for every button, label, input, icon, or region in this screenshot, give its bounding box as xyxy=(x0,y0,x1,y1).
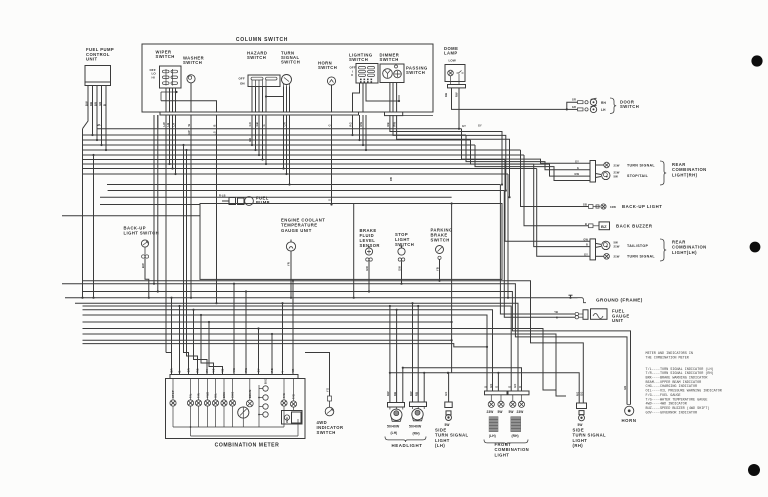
washer switch SW2 xyxy=(187,75,195,83)
svg-text:COLUMN SWITCH: COLUMN SWITCH xyxy=(236,37,288,43)
svg-text:BR: BR xyxy=(93,102,97,106)
svg-text:RG: RG xyxy=(575,392,579,396)
svg-text:GY: GY xyxy=(575,159,579,163)
svg-text:(RH): (RH) xyxy=(573,443,584,448)
svg-text:LIGHT: LIGHT xyxy=(495,452,510,457)
dome lamp connector xyxy=(448,85,466,88)
engine coolant temperature gauge unit U2 xyxy=(286,242,295,251)
wire horn switch to bar xyxy=(331,85,333,112)
rear LH tail stop bulb L5 xyxy=(596,243,602,244)
rear LH turn bulb L6 xyxy=(596,255,605,257)
svg-text:YB: YB xyxy=(554,310,558,314)
svg-text:(RH): (RH) xyxy=(512,434,519,438)
rear RH stop tail bulb L3 xyxy=(596,174,602,175)
turn signal switch SW4 xyxy=(282,75,292,85)
svg-text:UNIT: UNIT xyxy=(612,318,624,323)
svg-text:THE COMBINATION METER: THE COMBINATION METER xyxy=(646,357,689,361)
svg-text:RB: RB xyxy=(196,368,200,372)
wire meter pin 13 xyxy=(292,281,294,375)
svg-text:HORN: HORN xyxy=(621,418,636,423)
svg-text:F/G----FUEL GAUGE: F/G----FUEL GAUGE xyxy=(646,393,681,398)
registration dot top right xyxy=(751,55,762,66)
bus wire lower extra B xyxy=(83,344,488,347)
horn switch SW5 xyxy=(327,77,335,85)
svg-text:RH: RH xyxy=(601,101,607,105)
wire meter pin 11 xyxy=(271,334,273,375)
svg-text:SWITCH: SWITCH xyxy=(281,60,300,65)
svg-text:GW: GW xyxy=(398,266,402,271)
svg-text:R-LB: R-LB xyxy=(219,194,226,198)
svg-text:GB: GB xyxy=(583,203,587,207)
svg-text:SENSOR: SENSOR xyxy=(360,243,380,248)
wire fuel gauge feed 2 xyxy=(504,191,575,318)
wire front comb extra drops xyxy=(423,373,425,402)
svg-text:GR: GR xyxy=(572,98,576,102)
wire headlight LH drop 2 xyxy=(396,310,398,403)
wire fuel gauge feed xyxy=(500,185,575,315)
wire meter pin 4 xyxy=(187,150,198,375)
back buzzer BZ1 xyxy=(599,222,610,230)
front comb brace xyxy=(484,440,528,445)
headlight RH connector xyxy=(410,402,427,407)
svg-text:RG: RG xyxy=(349,122,353,126)
wire rear RH tail feed xyxy=(471,140,591,176)
wire meter pin 6 xyxy=(201,315,214,375)
headlight RH bulb L8 xyxy=(412,407,414,410)
svg-text:RB: RB xyxy=(393,392,397,396)
svg-text:B: B xyxy=(585,222,587,226)
svg-text:G: G xyxy=(328,124,332,126)
svg-text:METER AND INDICATORS IN: METER AND INDICATORS IN xyxy=(646,352,693,356)
svg-text:21W: 21W xyxy=(614,254,620,258)
svg-text:TAIL/STOP: TAIL/STOP xyxy=(627,244,648,248)
svg-text:(LH): (LH) xyxy=(489,434,496,438)
wire washer switch to bar xyxy=(190,83,192,112)
svg-text:BR: BR xyxy=(170,368,174,372)
svg-text:UNIT: UNIT xyxy=(86,57,98,62)
wire meter pin 8 xyxy=(233,284,235,375)
wire ground frame drop xyxy=(507,174,509,298)
bus wire to front LH inner xyxy=(83,310,493,391)
wire stop light lead extension xyxy=(401,279,403,283)
svg-text:LAMP: LAMP xyxy=(444,51,458,56)
svg-text:RW: RW xyxy=(455,92,459,97)
svg-text:GO: GO xyxy=(513,384,517,388)
svg-text:YR: YR xyxy=(291,368,295,372)
back buzzer connector xyxy=(589,224,594,228)
fuel gauge connector xyxy=(575,312,578,315)
svg-text:RW: RW xyxy=(409,391,413,396)
svg-text:O: O xyxy=(483,386,487,388)
bus wire nested B xyxy=(83,334,567,396)
front comb LH connector bar xyxy=(485,391,508,395)
svg-text:(LH): (LH) xyxy=(391,431,398,435)
headlight routing bus A xyxy=(403,368,522,391)
wire meter pin 5 xyxy=(194,310,208,375)
headlight routing bus B xyxy=(390,373,579,403)
svg-text:GW: GW xyxy=(583,237,588,241)
wire dimmer jog 1 xyxy=(390,128,502,185)
wire headlight RH drop 1 xyxy=(412,303,414,402)
wire rear LH turn feed xyxy=(537,169,590,257)
svg-text:RG: RG xyxy=(270,368,274,372)
back-up light bulb L4 xyxy=(601,204,606,209)
rear combination LH connector xyxy=(590,239,596,260)
fuel gauge unit U4 xyxy=(583,310,588,320)
svg-text:B: B xyxy=(586,243,588,247)
svg-text:SWITCH: SWITCH xyxy=(247,55,266,60)
svg-text:G: G xyxy=(508,386,512,388)
svg-text:5W: 5W xyxy=(445,423,450,427)
wire rear RH ground feed xyxy=(475,145,590,181)
svg-text:SWITCH: SWITCH xyxy=(317,430,336,435)
svg-text:HEADLIGHT: HEADLIGHT xyxy=(391,443,422,448)
svg-text:YG: YG xyxy=(326,388,330,392)
svg-text:21W: 21W xyxy=(614,163,620,167)
left bus rail xyxy=(82,129,84,298)
svg-text:BUZ----SPEED BUZZER (4WD SHIFT: BUZ----SPEED BUZZER (4WD SHIFT) xyxy=(646,406,710,411)
4wd indicator switch SW12 xyxy=(329,401,331,407)
headlight brace xyxy=(385,437,426,442)
svg-text:GOV----GOVERNOR INDICATOR: GOV----GOVERNOR INDICATOR xyxy=(646,411,698,415)
svg-text:G: G xyxy=(577,166,579,170)
bus wires upper band xyxy=(97,128,462,130)
meter internal bus xyxy=(173,426,284,428)
wire dimmer jog 3 xyxy=(397,128,510,197)
svg-text:GY: GY xyxy=(257,368,261,372)
svg-text:GAUGE UNIT: GAUGE UNIT xyxy=(281,228,312,233)
ground frame terminal xyxy=(569,297,571,299)
front comb RH lens xyxy=(511,416,522,432)
svg-text:SWITCH: SWITCH xyxy=(349,57,368,62)
svg-text:BZ: BZ xyxy=(601,224,607,229)
column switch enclosure xyxy=(142,44,433,112)
wire side LH riser xyxy=(451,204,453,373)
meter gauge cluster xyxy=(263,386,268,391)
wire headlight LH drop 1 xyxy=(389,306,391,403)
svg-text:RB: RB xyxy=(415,392,419,396)
wire meter pin 2 xyxy=(179,306,181,375)
wire hazard drops xyxy=(251,128,253,145)
svg-text:RW: RW xyxy=(359,121,363,126)
wire door switch fork xyxy=(567,102,578,109)
svg-text:5W: 5W xyxy=(498,410,503,414)
bus stub upper left xyxy=(62,215,200,217)
wire turn signal switch to bar xyxy=(283,87,285,113)
svg-text:GO: GO xyxy=(489,384,493,388)
svg-text:B: B xyxy=(102,104,106,106)
meter 4wd block xyxy=(282,411,303,425)
wire meter pin 7 xyxy=(209,322,223,375)
wire column drop far left A xyxy=(153,115,155,284)
wire headlight RH drop 2 xyxy=(417,306,419,402)
meter beam bulb xyxy=(246,400,253,407)
svg-text:RY: RY xyxy=(205,369,209,373)
svg-text:T/R----TURN SIGNAL INDICATOR (: T/R----TURN SIGNAL INDICATOR (RH) xyxy=(646,371,714,376)
svg-text:SWITCH: SWITCH xyxy=(406,70,425,75)
bus wire to side RH xyxy=(83,281,584,403)
svg-text:LIGHT(LH): LIGHT(LH) xyxy=(672,250,697,255)
wire column bar tail xyxy=(403,115,433,117)
dome lamp L1 xyxy=(445,65,465,82)
svg-text:YW: YW xyxy=(232,368,236,373)
svg-text:10W: 10W xyxy=(610,205,616,209)
svg-text:BW: BW xyxy=(84,101,88,106)
svg-text:GO: GO xyxy=(580,392,584,396)
wire meter pin 10 xyxy=(258,329,260,375)
svg-text:TURN SIGNAL: TURN SIGNAL xyxy=(627,163,655,167)
wire brake fluid sensor lead xyxy=(368,261,370,279)
svg-text:SWITCH: SWITCH xyxy=(156,54,175,59)
wire coolant gauge lead extension xyxy=(290,279,292,297)
svg-text:RW: RW xyxy=(244,367,248,372)
wire back buzzer feed xyxy=(524,155,589,226)
svg-text:RW: RW xyxy=(393,121,397,126)
fuel pump control unit U1 xyxy=(85,66,111,83)
wire washer drop xyxy=(190,115,192,298)
wire wiper switch to bar xyxy=(165,88,167,112)
svg-text:SWITCH: SWITCH xyxy=(620,104,639,109)
wire dome lamp drop xyxy=(458,88,460,129)
front comb LH lens xyxy=(489,416,499,432)
wire brake fluid lead extension xyxy=(368,279,370,291)
door switch brace xyxy=(610,98,616,114)
svg-text:GR: GR xyxy=(623,386,627,390)
wire fuel pump control unit leads xyxy=(83,86,89,129)
svg-text:T/G----WATER TEMPERATURE GAUGE: T/G----WATER TEMPERATURE GAUGE xyxy=(646,397,708,402)
registration dot mid right xyxy=(750,242,761,253)
combination meter connector bar xyxy=(170,375,298,379)
svg-text:G: G xyxy=(262,124,266,126)
column switch pin stubs xyxy=(153,115,155,128)
rear combination RH connector xyxy=(590,161,596,183)
side turn RH connector xyxy=(577,403,587,409)
svg-text:GR: GR xyxy=(98,102,102,106)
svg-text:SWITCH: SWITCH xyxy=(431,238,450,243)
wire engine coolant gauge lead xyxy=(290,251,292,279)
legend header xyxy=(646,352,722,415)
wire dome lamp to door switch xyxy=(452,88,567,110)
svg-text:B: B xyxy=(213,124,217,126)
svg-text:BW: BW xyxy=(141,263,145,268)
svg-text:GROUND (FRAME): GROUND (FRAME) xyxy=(596,298,643,303)
svg-text:GO: GO xyxy=(444,392,448,396)
bus wire lower extra A xyxy=(83,339,452,341)
ground frame bus wire xyxy=(65,297,578,299)
svg-text:5W: 5W xyxy=(509,410,514,414)
front comb LH bulbs L10 xyxy=(490,395,492,401)
svg-text:5W: 5W xyxy=(614,175,619,179)
svg-text:W: W xyxy=(187,124,191,127)
hazard switch SW3 xyxy=(248,75,280,87)
wire meter pin 12 xyxy=(282,303,284,374)
parking brake switch SW10 xyxy=(436,246,444,254)
dimmer switch SW7 xyxy=(380,64,404,83)
svg-text:SWITCH: SWITCH xyxy=(318,65,337,70)
side turn LH bulb L9 xyxy=(446,415,452,421)
svg-text:STOP/TAIL: STOP/TAIL xyxy=(627,174,649,178)
bus wire to front RH outer xyxy=(75,303,518,391)
svg-text:YG: YG xyxy=(212,368,216,372)
wire rear RH stop feed xyxy=(466,135,590,170)
svg-text:LIGHT(RH): LIGHT(RH) xyxy=(672,172,698,177)
svg-text:YB: YB xyxy=(436,267,440,271)
wire wiper drop 4 xyxy=(175,115,177,174)
wire rear LH tail feed xyxy=(505,160,590,242)
lighting switch SW6 xyxy=(356,64,378,84)
svg-text:WL: WL xyxy=(97,124,101,127)
svg-text:SWITCH: SWITCH xyxy=(183,60,202,65)
wire meter pin 9 xyxy=(245,292,247,375)
svg-text:RW: RW xyxy=(386,391,390,396)
svg-text:G: G xyxy=(495,386,499,388)
svg-text:BACK BUZZER: BACK BUZZER xyxy=(616,223,653,228)
svg-text:LOW: LOW xyxy=(449,59,456,63)
svg-text:GY: GY xyxy=(584,252,588,256)
meter temp gauge bulb xyxy=(290,401,296,407)
svg-text:Y: Y xyxy=(281,371,285,373)
wire turn signal drops xyxy=(283,128,285,169)
wire wiper drop 1 xyxy=(165,115,167,353)
svg-text:GY: GY xyxy=(478,125,482,128)
wire dome lamp leads xyxy=(450,76,452,85)
svg-text:COMBINATION METER: COMBINATION METER xyxy=(215,443,280,449)
wire lighting drops xyxy=(352,128,354,135)
wire rear RH turn feed xyxy=(462,129,591,164)
wire column drop far left B xyxy=(157,115,159,292)
wire parking brake switch lead xyxy=(439,259,441,279)
svg-text:(RH): (RH) xyxy=(413,432,420,436)
wire back-up light switch lead xyxy=(145,258,149,298)
svg-text:RB: RB xyxy=(444,93,448,97)
back-up light switch SW11 xyxy=(141,240,148,247)
svg-text:BUZ: BUZ xyxy=(264,378,268,384)
svg-text:GB: GB xyxy=(255,122,259,126)
svg-text:ON: ON xyxy=(240,81,245,85)
svg-text:TURN SIGNAL: TURN SIGNAL xyxy=(627,255,655,259)
svg-text:GW: GW xyxy=(574,172,579,176)
registration dot bottom right xyxy=(748,464,760,476)
svg-text:RB: RB xyxy=(390,177,393,181)
svg-text:50/40W: 50/40W xyxy=(409,425,422,429)
wire wiper drop 3 xyxy=(172,115,174,169)
rear RH turn bulb L2 xyxy=(596,164,605,166)
front comb RH connector bar xyxy=(508,391,529,395)
svg-text:LW: LW xyxy=(162,122,166,127)
wire rear LH stop feed xyxy=(534,164,590,247)
svg-text:YR: YR xyxy=(287,262,291,266)
wire back-up light feed xyxy=(521,150,589,207)
wire washer jog xyxy=(161,101,217,112)
wire lighting switch to bar xyxy=(353,83,360,112)
wire divider drop xyxy=(353,279,355,297)
svg-text:21W: 21W xyxy=(614,245,620,249)
wire dimmer jog 2 xyxy=(393,128,506,191)
svg-text:B: B xyxy=(178,370,182,372)
sensor enclosure divider xyxy=(353,204,355,280)
svg-text:RB: RB xyxy=(89,102,93,106)
horn H1 xyxy=(627,404,631,406)
fuel pump M1 xyxy=(245,197,254,206)
wire meter pin 3 xyxy=(184,145,189,375)
svg-text:(LH): (LH) xyxy=(435,443,445,448)
svg-text:GR: GR xyxy=(187,368,191,372)
wire parking brake lead extension xyxy=(439,279,441,280)
side turn LH connector xyxy=(445,402,452,408)
svg-text:4WD: 4WD xyxy=(286,417,289,423)
rear LH brace xyxy=(660,239,666,261)
svg-text:SWITCH: SWITCH xyxy=(395,242,414,247)
wire 4wd indicator feed xyxy=(305,353,330,397)
headlight LH connector xyxy=(388,403,405,408)
wire column drop mid xyxy=(216,115,218,303)
svg-text:PUMP: PUMP xyxy=(256,200,270,205)
wire horn switch drop xyxy=(331,128,333,205)
svg-text:RB: RB xyxy=(386,122,390,126)
wiper switch SW1 xyxy=(160,66,182,88)
svg-text:LH: LH xyxy=(601,108,606,112)
wire side LH drop xyxy=(448,373,450,402)
svg-text:O: O xyxy=(518,386,522,388)
wire stop light switch lead xyxy=(401,261,403,279)
fuel pump connector xyxy=(229,198,236,205)
dimmer connector block xyxy=(385,112,403,116)
sensor enclosure xyxy=(200,204,502,280)
svg-text:GO: GO xyxy=(248,122,252,126)
4wd indicator connector xyxy=(328,396,332,401)
wire dimmer switch to bar xyxy=(389,83,391,113)
brake fluid level sensor U3 xyxy=(365,248,372,255)
svg-text:50/40W: 50/40W xyxy=(387,425,400,429)
svg-text:SWITCH: SWITCH xyxy=(380,57,399,62)
svg-text:BACK-UP LIGHT: BACK-UP LIGHT xyxy=(622,204,662,209)
svg-text:23W: 23W xyxy=(517,410,524,414)
headlight LH bulb L7 xyxy=(389,407,391,410)
stop light switch SW9 xyxy=(398,248,405,255)
svg-text:T/L----TURN SIGNAL INDICATOR (: T/L----TURN SIGNAL INDICATOR (LH) xyxy=(646,367,714,372)
meter indicator bulbs xyxy=(170,400,176,406)
svg-text:GR: GR xyxy=(283,122,287,126)
bus wire to horn B xyxy=(83,292,631,405)
column switch connector bar xyxy=(160,112,359,115)
meter speedometer xyxy=(238,407,249,418)
svg-text:GW: GW xyxy=(365,266,369,271)
svg-text:II: II xyxy=(351,73,353,77)
bus wire nested A xyxy=(83,329,557,391)
side turn RH bulb L12 xyxy=(579,415,585,421)
wire fuel pump stub xyxy=(222,200,229,202)
svg-text:5W: 5W xyxy=(578,423,583,427)
svg-text:23W: 23W xyxy=(487,410,494,414)
back-up light connector xyxy=(589,205,594,209)
svg-text:B: B xyxy=(556,316,558,320)
combination meter box xyxy=(166,379,306,439)
meter fuel gauge bulb xyxy=(281,400,287,406)
left rail lower stub xyxy=(93,155,95,298)
wire wiper drop 2 xyxy=(169,115,171,164)
svg-text:YB: YB xyxy=(221,368,225,372)
svg-text:GY: GY xyxy=(462,124,466,128)
rear RH brace xyxy=(660,161,666,185)
bus wire to horn A xyxy=(62,284,627,405)
bus wire to front LH outer xyxy=(83,315,488,391)
bus wire to side LH xyxy=(83,321,452,323)
wire meter nest jog xyxy=(166,352,172,354)
bus wire to front RH inner xyxy=(83,306,512,391)
front comb RH bulbs L11 xyxy=(512,395,514,401)
svg-text:HI: HI xyxy=(152,75,155,79)
svg-text:OFF: OFF xyxy=(239,77,245,81)
